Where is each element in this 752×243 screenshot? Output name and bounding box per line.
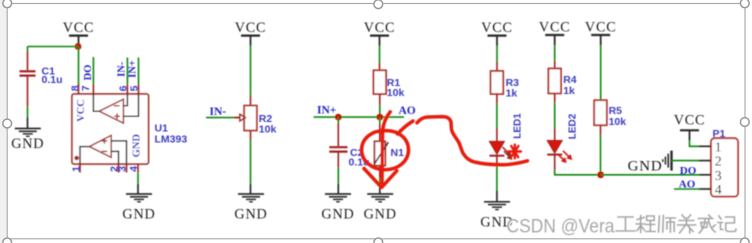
svg-text:3: 3: [715, 168, 722, 183]
label N1: [391, 147, 405, 159]
op-amp U1A symbol: [89, 135, 111, 157]
annotation circle around N1: [362, 121, 413, 170]
node DO junction: [597, 171, 604, 178]
svg-text:4: 4: [128, 166, 140, 172]
svg-text:1k: 1k: [506, 88, 518, 100]
node VCC1 junction: [75, 43, 82, 50]
wire VCC4 to R3: [496, 46, 498, 72]
svg-text:10k: 10k: [609, 116, 627, 128]
label R3: [506, 77, 520, 89]
wire R5 to DO net: [600, 125, 602, 175]
svg-text:N1: N1: [391, 147, 405, 159]
svg-text:IN-: IN-: [116, 61, 127, 77]
pin 8 of U1: [70, 84, 82, 94]
power VCC (U1 supply): [63, 20, 95, 46]
LED LED2: [547, 141, 572, 164]
net label AO: [399, 105, 416, 117]
watermark CJK glyphs: [616, 215, 737, 234]
resistor R3: [491, 71, 504, 94]
node C2 junction: [335, 114, 342, 121]
svg-text:GND: GND: [321, 207, 354, 223]
svg-text:LED1: LED1: [512, 113, 523, 139]
svg-text:GND: GND: [628, 159, 663, 175]
ground GND (P1 pin2): [628, 151, 672, 175]
wire R2 to ground: [250, 131, 252, 195]
svg-text:VCC: VCC: [674, 113, 706, 129]
annotation squiggle to LED1: [417, 117, 528, 165]
wire U1A out to pin1: [80, 147, 89, 164]
net label IN+ (pin5): [127, 60, 138, 78]
value R4 1k: [563, 85, 575, 97]
wire DO to P1 pin3: [601, 174, 700, 176]
svg-text:DO: DO: [680, 165, 697, 177]
pin 1 of U1: [70, 164, 82, 173]
wire VCC1 to C1: [28, 46, 79, 48]
svg-text:AO: AO: [399, 105, 416, 117]
ground GND (R2): [234, 194, 267, 223]
node N1 junction: [376, 114, 383, 121]
wire AO to P1 pin4: [674, 188, 700, 190]
wire VCC3 to R1: [379, 46, 381, 71]
net label IN- (pin6): [116, 61, 127, 77]
svg-text:VCC: VCC: [585, 20, 617, 36]
wire U1 pin6 stub: [126, 58, 128, 85]
ground GND (N1): [364, 194, 397, 223]
svg-text:GND: GND: [122, 207, 155, 223]
capacitor C2: [329, 117, 347, 167]
svg-text:GND: GND: [234, 207, 267, 223]
label C1: [42, 66, 56, 78]
wire C2 to ground: [337, 168, 339, 195]
power VCC (P1): [674, 113, 706, 141]
value R2 10k: [259, 123, 277, 135]
svg-text:5: 5: [128, 85, 140, 91]
pin 2 of U1: [109, 164, 121, 173]
svg-text:P1: P1: [713, 128, 726, 140]
label U1: [155, 123, 169, 135]
wire LED2 to DO net: [555, 155, 601, 175]
wire C1 to ground: [27, 107, 29, 129]
net label DO (pin7): [83, 65, 94, 81]
svg-text:VCC: VCC: [76, 99, 87, 122]
wire VCC5 to R4: [554, 45, 556, 69]
watermark CSDN text: [507, 216, 616, 239]
wire N1 to ground: [379, 166, 381, 194]
annotation star on LED1: [509, 145, 522, 159]
svg-text:0.1u: 0.1u: [42, 74, 63, 86]
power VCC (R1): [364, 20, 396, 46]
wire VCC6 to R5: [600, 45, 602, 101]
svg-text:1: 1: [70, 166, 82, 172]
svg-text:10k: 10k: [259, 123, 277, 135]
pin 3 of U1: [117, 164, 129, 173]
svg-text:GND: GND: [132, 134, 143, 158]
wire R3 to LED1: [496, 94, 498, 141]
wiper arrow R2: [234, 114, 246, 121]
pin 1 of P1: [699, 139, 722, 154]
resistor R4: [548, 69, 561, 94]
photoresistor N1: [374, 141, 388, 165]
ground GND (C2): [321, 194, 354, 223]
value R3 1k: [506, 88, 518, 100]
net label AO (P1): [679, 179, 696, 191]
svg-text:VCC: VCC: [63, 20, 95, 36]
pin 2 of P1: [699, 154, 722, 169]
label LED1: [512, 113, 523, 139]
svg-text:IN+: IN+: [317, 105, 336, 117]
svg-text:7: 7: [80, 85, 92, 91]
pin 6 of U1: [117, 84, 129, 94]
svg-text:CSDN @Vera: CSDN @Vera: [507, 216, 615, 238]
wire U1 pin4 to ground: [137, 173, 139, 195]
capacitor C1: [20, 47, 36, 107]
wire R4 to LED2: [554, 93, 556, 140]
svg-text:VCC: VCC: [364, 20, 396, 36]
label R2: [259, 113, 273, 125]
svg-text:3: 3: [117, 166, 129, 172]
svg-text:IN+: IN+: [127, 60, 138, 78]
wire pin2 to U1A inv: [111, 151, 118, 164]
net label IN+: [317, 105, 336, 117]
net label DO (P1): [680, 165, 697, 177]
node pin1 marker: [74, 156, 79, 161]
wire pin6 to U1B inv: [123, 94, 127, 106]
wire VCC1 stem: [78, 46, 80, 48]
wire IN- to R2 wiper: [206, 117, 239, 119]
label R5: [609, 105, 623, 117]
wire VCC2 to R2: [250, 46, 252, 106]
label P1: [713, 128, 726, 140]
pin 3 of P1: [699, 168, 722, 183]
svg-text:2: 2: [715, 154, 722, 169]
connector P1 body: [711, 138, 738, 196]
resistor R1: [374, 70, 387, 94]
pin 4 of U1: [128, 164, 140, 173]
value R5 10k: [609, 116, 627, 128]
svg-text:IN-: IN-: [210, 106, 227, 118]
power VCC (R5): [585, 20, 617, 46]
wire IN+ horizontal: [314, 116, 404, 118]
label R4: [563, 74, 577, 86]
wire GND to P1 pin2: [671, 160, 699, 162]
wire pin7 to U1B out: [93, 94, 99, 111]
wire pin3 to U1A noninv: [111, 141, 126, 164]
wire N1 to IN+ node: [379, 117, 381, 141]
svg-text:DO: DO: [83, 65, 94, 81]
annotation arrow down: [364, 112, 397, 188]
op-amp U1 body: [72, 94, 149, 164]
svg-text:10k: 10k: [387, 87, 405, 99]
wire pin5 to U1B noninv: [123, 94, 138, 116]
op-amp U1B symbol: [99, 99, 123, 123]
value C1 0.1u: [42, 74, 63, 86]
svg-text:LED2: LED2: [567, 113, 578, 139]
wire LED1 to ground: [496, 156, 498, 202]
svg-text:VCC: VCC: [235, 20, 267, 36]
LED LED1: [489, 141, 512, 160]
ground GND (C1): [11, 129, 44, 153]
label LED2: [567, 113, 578, 139]
ground GND (U1): [122, 194, 155, 223]
resistor R5: [594, 100, 607, 125]
pin name GND (U1): [132, 134, 143, 158]
wire U1 pin7 DO stub: [92, 57, 94, 84]
svg-text:4: 4: [715, 182, 722, 197]
svg-text:GND: GND: [11, 136, 44, 152]
power VCC (R4): [539, 20, 571, 46]
value C2 0.1u: [349, 156, 370, 168]
svg-text:GND: GND: [364, 207, 397, 223]
svg-text:VCC: VCC: [539, 20, 571, 36]
svg-text:AO: AO: [679, 179, 696, 191]
wire U1 pin5 stub: [138, 58, 140, 85]
pin 4 of P1: [699, 182, 722, 197]
net label IN- (R2): [210, 106, 227, 118]
pin 7 of U1: [80, 84, 93, 94]
svg-text:LM393: LM393: [155, 134, 188, 146]
wire VCC to P1 pin1: [690, 140, 700, 146]
wire R1 to IN+ node: [379, 94, 381, 117]
label C2: [350, 147, 364, 159]
value U1 LM393: [155, 134, 188, 146]
pin name VCC (U1): [76, 99, 87, 122]
wire VCC1 to U1 pin8: [78, 47, 80, 87]
potentiometer R2: [244, 106, 257, 131]
label R1: [387, 77, 401, 89]
svg-text:1: 1: [715, 139, 722, 154]
pin 5 of U1: [128, 84, 140, 94]
svg-text:VCC: VCC: [481, 20, 513, 36]
svg-text:1k: 1k: [563, 85, 575, 97]
ground GND (LED1): [480, 202, 513, 231]
value R1 10k: [387, 87, 405, 99]
power VCC (R2): [235, 20, 267, 46]
power VCC (R3): [481, 20, 513, 46]
